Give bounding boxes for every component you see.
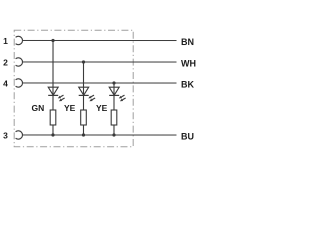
svg-text:4: 4 <box>3 78 8 88</box>
junction dot at WH / LED2 drop <box>82 60 85 63</box>
pin 2 contact <box>16 58 23 66</box>
junction dot at BN / LED1 drop <box>51 39 54 42</box>
svg-text:GN: GN <box>31 103 44 113</box>
wire BK (pin 4) <box>23 82 177 84</box>
wire BU (pin 3) <box>22 134 176 136</box>
svg-text:BU: BU <box>181 132 194 142</box>
svg-text:YE: YE <box>64 103 76 113</box>
svg-text:BK: BK <box>181 80 195 90</box>
LED GN (D1) <box>48 87 64 101</box>
wire: vertical drop from WH to LED2 <box>83 62 85 87</box>
junction dot at BK / LED3 drop <box>112 81 115 84</box>
pin 4 contact <box>16 79 23 87</box>
wire: vertical drop from BN to LED1 <box>52 40 54 87</box>
resistor R3 <box>111 110 117 125</box>
wire BN (pin 1) <box>23 39 177 41</box>
resistor R1 <box>50 110 56 125</box>
svg-text:BN: BN <box>181 37 194 47</box>
connector housing outline (dash-dot box) <box>14 30 133 147</box>
wire WH (pin 2) <box>23 61 177 63</box>
LED YE (D3) <box>109 87 125 101</box>
pin 3 contact <box>16 131 23 139</box>
junction dot R3 / BU <box>112 133 115 136</box>
wire: LED3 to resistor R3 <box>113 95 115 110</box>
svg-text:WH: WH <box>181 59 196 69</box>
wire: R3 to BU line <box>113 125 115 135</box>
svg-text:1: 1 <box>3 36 8 46</box>
junction dot R2 / BU <box>82 133 85 136</box>
svg-text:3: 3 <box>3 130 8 140</box>
wire: R1 to BU line <box>52 125 54 135</box>
wire: LED1 to resistor R1 <box>52 95 54 110</box>
LED YE (D2) <box>79 87 95 101</box>
wire: R2 to BU line <box>82 125 84 135</box>
svg-text:YE: YE <box>96 103 108 113</box>
resistor R2 <box>81 110 87 125</box>
junction dot R1 / BU <box>51 133 54 136</box>
wire: vertical drop from BK to LED3 <box>113 83 115 87</box>
wire: LED2 to resistor R2 <box>82 95 84 110</box>
svg-text:2: 2 <box>3 57 8 67</box>
pin 1 contact <box>16 36 23 44</box>
